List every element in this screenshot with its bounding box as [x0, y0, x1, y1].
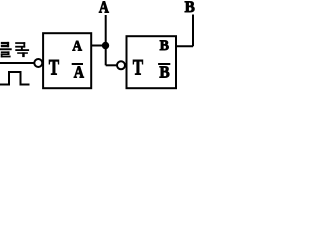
- svg-text:T: T: [49, 54, 59, 79]
- svg-text:A: A: [99, 0, 109, 17]
- svg-text:A: A: [74, 62, 84, 81]
- svg-text:A: A: [72, 38, 82, 55]
- svg-text:B: B: [185, 0, 195, 16]
- svg-text:T: T: [133, 54, 143, 79]
- svg-text:B: B: [159, 62, 169, 81]
- svg-text:B: B: [160, 38, 169, 54]
